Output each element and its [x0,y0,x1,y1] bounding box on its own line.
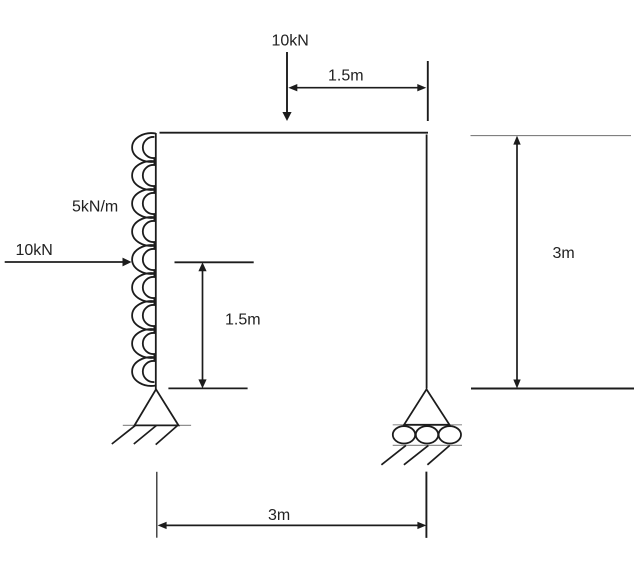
svg-text:3m: 3m [553,245,575,262]
beam (top horizontal member) [160,132,429,134]
roller support upper ground line [393,424,462,426]
svg-text:3m: 3m [268,507,290,524]
svg-text:10kN: 10kN [16,242,53,259]
dimension 1.5m top horizontal [288,84,426,91]
extension tick bottom of 3m right [471,388,634,390]
svg-text:1.5m: 1.5m [225,312,261,329]
pin support ground line [123,424,191,426]
roller support hatching [381,445,449,464]
right column member [426,135,428,389]
roller support right triangle [404,389,450,425]
left column member [155,133,157,390]
dimension 1.5m left vertical [198,262,206,388]
extension line right of 3m bottom [425,472,427,538]
point load 10kN top arrow [282,52,291,121]
dimension 3m bottom horizontal [158,522,427,529]
roller support lower ground line [393,444,462,446]
dimension 3m right vertical [513,136,520,389]
svg-text:10kN: 10kN [272,33,309,50]
extension line right of 1.5m top [427,61,429,121]
pin support hatching [112,425,179,445]
extension tick bottom of 1.5m left [168,387,247,389]
svg-text:1.5m: 1.5m [328,68,364,85]
extension tick top of 3m right [471,135,632,137]
extension tick top of 1.5m left [175,261,254,263]
svg-text:5kN/m: 5kN/m [72,199,118,216]
distributed load 5kN/m coils on left column [132,133,156,386]
roller support rollers [393,426,461,443]
extension line left of 3m bottom [156,472,158,538]
point load 10kN left arrow [5,258,132,267]
pin support left triangle [135,389,179,425]
